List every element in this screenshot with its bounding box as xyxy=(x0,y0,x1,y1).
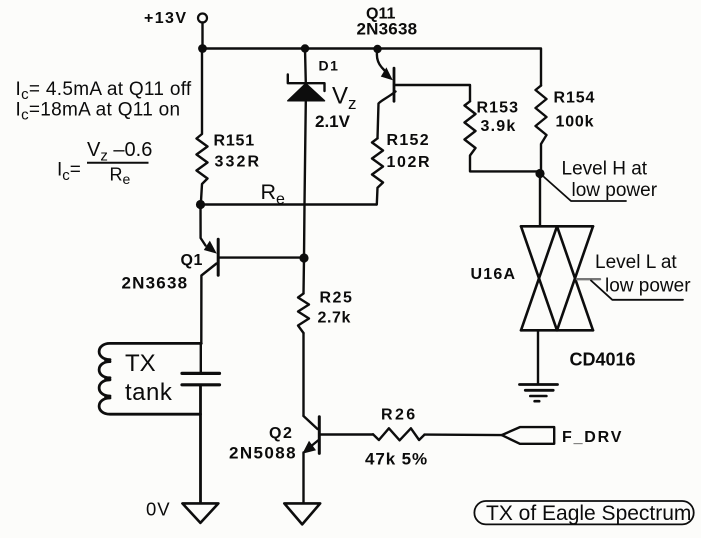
transistor Q11 base bar xyxy=(393,68,396,101)
svg-text:Q2: Q2 xyxy=(269,425,293,442)
callout stub Level L xyxy=(577,278,600,280)
resistor R154 xyxy=(536,86,547,174)
analog switch U16A top edge xyxy=(521,225,593,228)
svg-text:Ic=18mA at Q11 on: Ic=18mA at Q11 on xyxy=(16,100,181,124)
connector F_DRV flag xyxy=(502,427,555,444)
svg-text:tank: tank xyxy=(125,379,173,406)
svg-text:47k 5%: 47k 5% xyxy=(365,450,428,469)
svg-text:2N3638: 2N3638 xyxy=(122,274,189,293)
wire capacitor to bottom line and ground xyxy=(199,386,202,503)
svg-text:332R: 332R xyxy=(215,154,262,171)
wire +13V terminal to rail xyxy=(201,23,203,49)
node junction at +13V rail left xyxy=(198,44,207,53)
wire Re net xyxy=(201,203,377,205)
wire Q1 base to node xyxy=(218,256,304,258)
wire switch bottom to ground xyxy=(537,330,539,384)
diode D1 zener cathode bar xyxy=(288,75,325,92)
transistor Q1 collector xyxy=(201,264,216,344)
svg-text:2N5088: 2N5088 xyxy=(229,443,297,462)
ground earth bar3 xyxy=(530,395,546,398)
analog switch U16A diagonal BR-TC xyxy=(557,226,593,330)
transistor Q2 collector xyxy=(304,416,318,429)
node junction Q11 emitter xyxy=(373,45,381,53)
ground Q2 triangle xyxy=(284,503,320,524)
ground earth bar1 xyxy=(520,383,558,386)
node junction base/R25 xyxy=(299,253,308,262)
callout line Level H xyxy=(544,177,626,201)
wire node to switch top xyxy=(539,174,541,227)
diode D1 (zener) wire top xyxy=(304,49,307,84)
svg-text:R25: R25 xyxy=(320,290,354,307)
wire node to R25 xyxy=(302,258,305,294)
wire R25 to Q2 collector xyxy=(302,333,304,416)
svg-text:Q1: Q1 xyxy=(181,252,203,269)
capacitor bottom plate xyxy=(182,383,220,386)
svg-text:R152: R152 xyxy=(387,132,430,149)
resistor R152 xyxy=(372,138,383,204)
svg-text:low power: low power xyxy=(605,276,691,297)
resistor R25 xyxy=(298,294,309,334)
analog switch U16A diagonal TR-BC xyxy=(557,226,593,330)
svg-text:TX: TX xyxy=(125,350,156,377)
svg-text:Ic=: Ic= xyxy=(57,160,81,185)
transistor Q2 emitter xyxy=(307,441,318,450)
svg-text:2N3638: 2N3638 xyxy=(357,20,418,39)
svg-text:2.7k: 2.7k xyxy=(318,310,352,327)
wire Q11 base to R153 xyxy=(394,85,470,101)
svg-text:Vz: Vz xyxy=(332,83,357,114)
svg-text:3.9k: 3.9k xyxy=(481,118,517,135)
ground earth bar4 xyxy=(535,400,540,403)
resistor R26 xyxy=(373,428,425,440)
svg-text:+13V: +13V xyxy=(144,10,187,27)
wire D1 anode down through Re to node xyxy=(304,101,306,258)
analog switch U16A bottom edge xyxy=(521,329,593,332)
svg-text:U16A: U16A xyxy=(471,266,517,283)
diode D1 anode triangle xyxy=(288,84,325,101)
svg-text:D1: D1 xyxy=(319,58,340,74)
callout line Level L xyxy=(591,281,683,300)
svg-text:2.1V: 2.1V xyxy=(315,112,351,131)
wire top line to capacitor xyxy=(200,343,202,372)
transistor Q11 emitter wire and curve xyxy=(377,49,386,72)
capacitor top plate xyxy=(182,372,220,375)
node junction D1 top xyxy=(301,44,309,52)
svg-text:CD4016: CD4016 xyxy=(570,350,636,370)
wire Q2 base to R26 xyxy=(319,433,373,435)
svg-text:low power: low power xyxy=(572,180,658,201)
transistor Q1 emitter arrow xyxy=(204,241,217,254)
node junction level H xyxy=(535,169,544,178)
svg-text:R151: R151 xyxy=(214,133,255,150)
svg-text:Level L at: Level L at xyxy=(595,252,677,273)
svg-text:R154: R154 xyxy=(554,90,596,107)
wire R26 to F_DRV xyxy=(425,433,502,436)
ground earth bar2 xyxy=(525,389,553,392)
svg-text:100k: 100k xyxy=(556,114,595,131)
formula fraction bar xyxy=(87,162,149,164)
svg-text:TX of Eagle Spectrum: TX of Eagle Spectrum xyxy=(486,502,691,525)
svg-text:Re: Re xyxy=(110,165,131,188)
ground 0V triangle xyxy=(182,503,218,523)
transistor Q11 collector xyxy=(378,92,396,139)
svg-text:R153: R153 xyxy=(477,100,520,117)
title box TX of Eagle Spectrum xyxy=(474,501,693,524)
wire Q2 emitter to ground xyxy=(302,453,304,504)
wire top supply rail xyxy=(203,49,542,86)
analog switch U16A diagonal BL-TC xyxy=(521,226,557,330)
+13V terminal circle xyxy=(198,14,207,23)
inductor TX tank coil xyxy=(99,343,201,414)
transistor Q2 base bar xyxy=(318,417,321,454)
svg-text:Level H at: Level H at xyxy=(562,159,648,180)
analog switch U16A diagonal TL-BC xyxy=(521,226,557,330)
resistor R153 xyxy=(465,101,541,171)
transistor Q2 emitter arrow xyxy=(302,441,316,454)
transistor Q1 base bar xyxy=(217,239,220,275)
svg-text:R26: R26 xyxy=(381,407,418,424)
svg-text:0V: 0V xyxy=(146,499,171,520)
node junction Re left xyxy=(196,200,205,209)
svg-text:Re: Re xyxy=(261,180,286,208)
transistor Q1 emitter wire xyxy=(201,205,206,246)
svg-text:102R: 102R xyxy=(387,154,432,171)
svg-text:Vz –0.6: Vz –0.6 xyxy=(87,139,152,165)
transistor Q11 emitter arrow xyxy=(381,67,393,80)
resistor R151 xyxy=(197,49,208,205)
svg-text:F_DRV: F_DRV xyxy=(562,429,623,446)
